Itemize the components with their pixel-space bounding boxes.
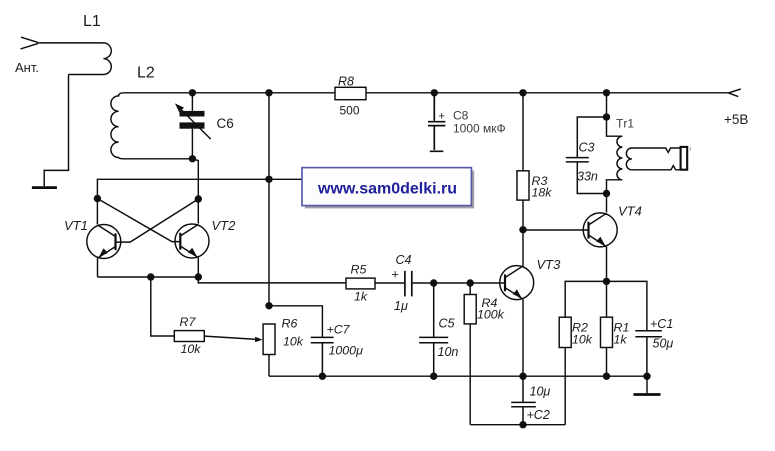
node x269 mv top: [265, 176, 272, 183]
capacitor C5: [419, 283, 448, 376]
coil L2: [111, 93, 193, 159]
wire VT4 collector: [606, 194, 608, 213]
node rail R3: [519, 89, 526, 96]
svg-text:10k: 10k: [572, 333, 593, 347]
wire R4 bottom to C2 bottom: [469, 324, 471, 425]
resistor R6: [263, 324, 275, 355]
svg-text:+5В: +5В: [724, 112, 748, 127]
svg-text:100k: 100k: [477, 308, 505, 322]
capacitor C7: [311, 337, 334, 376]
svg-text:C3: C3: [579, 141, 595, 155]
watermark box: [302, 168, 471, 206]
wire vertical x269: [268, 93, 270, 306]
capacitor C8: [428, 93, 446, 152]
node Tr1 bottom: [603, 190, 610, 197]
wire cross to VT2 base: [97, 199, 180, 242]
wire VT4 base: [523, 229, 589, 231]
svg-text:L1: L1: [83, 13, 101, 30]
node VT4 emitter: [603, 278, 610, 285]
svg-text:+: +: [439, 111, 445, 123]
svg-text:500: 500: [340, 104, 360, 118]
svg-text:+C2: +C2: [527, 408, 550, 422]
capacitor C3: [566, 117, 607, 194]
svg-text:+C7: +C7: [327, 323, 351, 337]
wire R5 to C4: [375, 282, 404, 284]
wire C6 to VT2 collector: [192, 159, 198, 224]
svg-text:C6: C6: [217, 116, 234, 131]
svg-text:1k: 1k: [614, 333, 628, 347]
svg-text:10k: 10k: [283, 335, 304, 349]
svg-text:33n: 33n: [577, 170, 598, 184]
svg-text:VT1: VT1: [64, 218, 88, 233]
svg-text:10μ: 10μ: [530, 385, 551, 399]
wire node to C1: [607, 281, 647, 330]
svg-text:+: +: [392, 268, 399, 282]
svg-text:1k: 1k: [354, 290, 368, 304]
wire VT2 emitter: [197, 258, 199, 277]
+5V connector: [729, 89, 741, 97]
node VT2 collector: [195, 195, 202, 202]
capacitor C2: [511, 376, 536, 425]
wire C2 bottom bus: [470, 424, 565, 426]
svg-text:R6: R6: [282, 317, 298, 331]
wire R7 branch: [151, 277, 175, 336]
svg-text:10k: 10k: [181, 342, 202, 356]
resistor R8: [335, 87, 366, 99]
node rail ground: [643, 373, 650, 380]
wire node to R2: [565, 281, 606, 317]
wire VT1 collector: [96, 199, 98, 225]
ground (antenna): [32, 186, 57, 189]
node C2 bottom: [519, 421, 526, 428]
coil L1: [38, 43, 112, 75]
node mv bottom right: [195, 273, 202, 280]
transformer Tr1 primary: [607, 117, 623, 194]
svg-text:Ант.: Ант.: [15, 60, 39, 75]
wire C4 to VT3 base: [413, 282, 505, 284]
wire C6 bottom stub: [191, 129, 193, 159]
wire VT1 emitter: [97, 258, 99, 277]
svg-text:VT3: VT3: [537, 257, 562, 272]
wire VT3 emitter: [522, 299, 524, 376]
earphone: [681, 147, 688, 170]
svg-text:+C1: +C1: [650, 317, 673, 331]
transistor VT3: [500, 266, 534, 300]
svg-text:VT4: VT4: [618, 204, 642, 219]
node rail C7: [319, 373, 326, 380]
wire VT3 collector: [522, 230, 524, 266]
svg-text:50μ: 50μ: [653, 337, 674, 351]
node x269 R6 top: [265, 302, 272, 309]
wire top rail: [192, 92, 728, 94]
node R3 bottom: [519, 226, 526, 233]
node R7 branch: [147, 273, 154, 280]
wire R1 bottom: [606, 348, 608, 377]
capacitor C4: [405, 271, 412, 297]
svg-text:R8: R8: [338, 75, 354, 89]
resistor R7: [174, 331, 204, 342]
wire R2 bottom: [564, 348, 566, 425]
node L2 bottom: [189, 155, 196, 162]
svg-text:18k: 18k: [532, 186, 553, 200]
svg-text:Тr1: Тr1: [616, 117, 634, 131]
node C5 branch: [430, 279, 437, 286]
node R4 branch: [467, 279, 474, 286]
node rail C2: [519, 373, 526, 380]
transformer Tr1 secondary: [626, 148, 680, 170]
transistor VT2: [175, 224, 209, 258]
wire rail to Tr1: [606, 93, 608, 117]
ground (right): [646, 376, 648, 393]
antenna connector: [21, 37, 39, 49]
wire multivibrator top: [97, 179, 308, 198]
node rail C8: [431, 89, 438, 96]
capacitor C1: [635, 331, 662, 376]
resistor R2: [559, 317, 571, 347]
node rail C5: [430, 373, 437, 380]
svg-text:C5: C5: [439, 317, 455, 331]
capacitor C6 plates: [180, 111, 205, 129]
wire R7 wiper arrow: [204, 336, 256, 339]
node rail Tr1: [603, 89, 610, 96]
svg-text:C4: C4: [396, 253, 412, 267]
wire cross to VT1 base: [116, 199, 199, 242]
svg-text:L2: L2: [137, 65, 155, 82]
C6 variable arrow: [180, 109, 210, 139]
resistor R3: [522, 93, 524, 230]
wire VT4 emitter: [606, 247, 608, 282]
wire L1 to ground: [44, 75, 68, 187]
node L2 top: [189, 89, 196, 96]
svg-text:1000 мкФ: 1000 мкФ: [453, 122, 506, 136]
svg-text:C8: C8: [453, 109, 469, 123]
wire C7 branch: [269, 306, 322, 337]
node Tr1 top: [603, 113, 610, 120]
svg-text:R5: R5: [351, 263, 367, 277]
wire multivibrator bottom: [98, 277, 347, 283]
transistor VT4: [583, 213, 617, 247]
wire C6 top stub: [191, 93, 193, 111]
svg-text:10n: 10n: [438, 345, 459, 359]
wire R6 bottom: [268, 355, 270, 377]
node VT1 collector: [94, 195, 101, 202]
svg-text:1000μ: 1000μ: [329, 344, 364, 358]
resistor R4: [469, 283, 471, 295]
resistor R5: [346, 278, 375, 289]
svg-text:VT2: VT2: [212, 218, 237, 233]
node rail x269: [265, 89, 272, 96]
wire bottom rail: [269, 375, 647, 377]
svg-text:www.sam0delki.ru: www.sam0delki.ru: [317, 180, 457, 197]
node rail R1: [603, 373, 610, 380]
watermark box shadow: [305, 170, 474, 208]
svg-text:R7: R7: [180, 315, 197, 329]
resistor R1: [606, 281, 608, 317]
transistor VT1: [87, 225, 121, 259]
svg-text:1μ: 1μ: [394, 299, 408, 313]
